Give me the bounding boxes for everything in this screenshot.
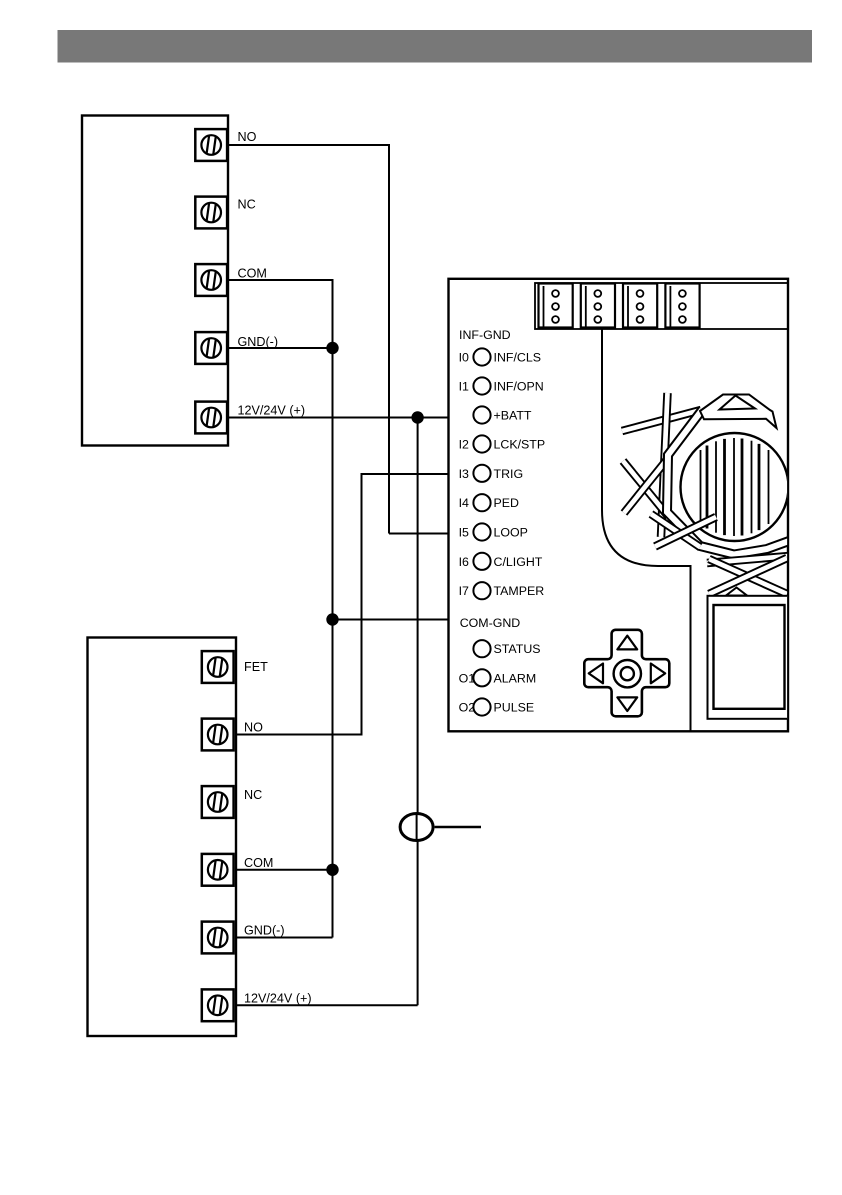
svg-text:LOOP: LOOP <box>494 526 528 540</box>
svg-text:INF/OPN: INF/OPN <box>494 380 544 394</box>
svg-text:C/LIGHT: C/LIGHT <box>494 555 543 569</box>
svg-text:PULSE: PULSE <box>494 701 535 715</box>
svg-text:ALARM: ALARM <box>494 671 537 685</box>
svg-text:GND(-): GND(-) <box>238 335 279 349</box>
svg-text:COM: COM <box>244 856 273 870</box>
svg-text:INF-GND: INF-GND <box>459 328 511 342</box>
svg-text:I5: I5 <box>459 526 469 540</box>
svg-text:COM: COM <box>238 267 267 281</box>
svg-text:NC: NC <box>244 788 262 802</box>
svg-text:FET: FET <box>244 660 268 674</box>
svg-text:TAMPER: TAMPER <box>494 584 545 598</box>
svg-text:I7: I7 <box>459 584 469 598</box>
svg-text:TRIG: TRIG <box>494 467 524 481</box>
svg-text:I3: I3 <box>459 467 469 481</box>
svg-text:NC: NC <box>238 198 256 212</box>
svg-text:I6: I6 <box>459 555 469 569</box>
svg-text:+BATT: +BATT <box>494 409 532 423</box>
svg-text:NO: NO <box>238 130 257 144</box>
svg-text:I4: I4 <box>459 496 469 510</box>
svg-text:STATUS: STATUS <box>494 642 541 656</box>
svg-text:I0: I0 <box>459 351 469 365</box>
svg-text:I2: I2 <box>459 438 469 452</box>
svg-text:INF/CLS: INF/CLS <box>494 351 542 365</box>
svg-text:I1: I1 <box>459 380 469 394</box>
svg-text:LCK/STP: LCK/STP <box>494 438 546 452</box>
svg-text:PED: PED <box>494 496 520 510</box>
svg-text:12V/24V (+): 12V/24V (+) <box>244 991 312 1005</box>
svg-text:GND(-): GND(-) <box>244 924 285 938</box>
svg-text:COM-GND: COM-GND <box>460 616 521 630</box>
svg-text:NO: NO <box>244 721 263 735</box>
svg-text:12V/24V (+): 12V/24V (+) <box>238 404 306 418</box>
